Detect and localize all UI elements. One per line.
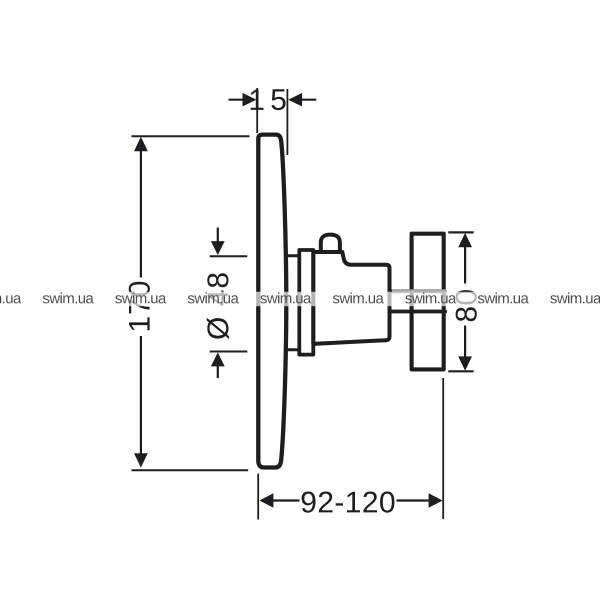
dimension 92-120 (wall depth range): [258, 378, 443, 520]
arrowhead 80 up: [458, 233, 472, 247]
valve body: [313, 252, 389, 344]
ext line left of 15: [256, 88, 258, 133]
arrowhead 15 left: [243, 93, 257, 107]
label 92-120: [302, 492, 395, 513]
watermark texts swim.ua: [0, 292, 600, 303]
lower arrow stem: [217, 366, 219, 379]
pointer line bottom: [132, 469, 249, 471]
dimension 15 (plate thickness): [229, 88, 317, 155]
ext line left: [257, 474, 259, 520]
tick top: [448, 231, 473, 233]
upper pointer line: [210, 255, 248, 257]
watermark translucent band: [0, 292, 600, 306]
label 170: [129, 282, 150, 331]
arrow tails 92-120: [273, 499, 430, 501]
label Ø48: [207, 273, 229, 339]
arrowhead 170 up: [134, 137, 148, 151]
ext line right of 15: [286, 89, 288, 155]
upper arrow stem: [217, 228, 219, 243]
pointer line top: [132, 135, 250, 137]
dimension 170 (plate height): [132, 136, 250, 470]
arrowhead 170 down: [134, 453, 148, 467]
handle stem upper line: [390, 289, 446, 293]
safety stop button: [321, 235, 340, 252]
arrowhead 92-120 left: [259, 493, 273, 508]
dimension 80 (handle height): [448, 232, 473, 371]
arrowhead 80 down: [458, 356, 472, 370]
ext line right: [442, 378, 444, 519]
tick bottom: [448, 370, 473, 372]
arrowhead 15 right: [288, 93, 302, 107]
handle stem lower line: [390, 310, 446, 314]
dim line 80: [464, 247, 466, 358]
cross handle bar: [412, 234, 444, 370]
wall plate (escutcheon, side profile): [258, 135, 286, 468]
cartridge flange: [299, 250, 313, 355]
arrow tails 15: [229, 99, 317, 101]
label 80: [456, 290, 477, 321]
arrowhead 92-120 right: [429, 493, 443, 508]
label 15: [251, 89, 286, 110]
sleeve connector top: [286, 254, 300, 257]
arrowhead Ø48 down: [211, 241, 225, 255]
sleeve connector bottom: [286, 348, 300, 351]
dimension Ø48 (cartridge diameter): [210, 228, 248, 379]
arrowhead Ø48 up: [211, 352, 225, 366]
dim line 170: [140, 150, 142, 454]
lower pointer line: [210, 351, 248, 353]
extra wash over stem upper line: [392, 289, 457, 292]
